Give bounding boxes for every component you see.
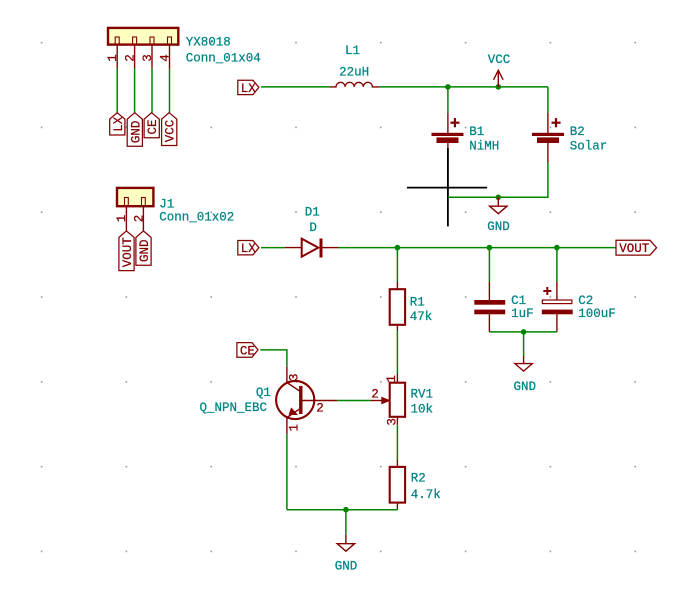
global label LX (vertical) xyxy=(110,113,126,135)
global label VOUT (vertical) xyxy=(119,231,135,271)
global label VOUT xyxy=(616,240,657,256)
svg-text:GND: GND xyxy=(514,380,537,394)
wire pin1 to LX label xyxy=(116,69,118,113)
svg-text:NiMH: NiMH xyxy=(469,140,499,154)
svg-text:3: 3 xyxy=(141,54,155,62)
global label GND (vertical) xyxy=(127,113,143,147)
wire node to B1 xyxy=(447,87,449,113)
junction at VCC xyxy=(496,84,502,90)
wire L1 to node VCC xyxy=(380,86,548,88)
battery B2 xyxy=(532,113,564,163)
svg-text:3: 3 xyxy=(288,373,302,381)
wire R1 to RV1 xyxy=(396,331,398,374)
wire B2 to bottom rail xyxy=(448,163,548,198)
wire R1 node to C1 node xyxy=(397,247,489,249)
wire node to R1 xyxy=(396,248,398,282)
svg-text:1: 1 xyxy=(106,54,120,62)
transistor Q1 xyxy=(276,367,337,434)
wire pin3 to CE label xyxy=(151,69,153,113)
svg-text:VCC: VCC xyxy=(164,120,178,143)
graphic line horizontal (black) xyxy=(407,187,487,189)
svg-text:1: 1 xyxy=(115,215,129,223)
svg-text:2: 2 xyxy=(124,54,138,62)
wire pin2 to GND label xyxy=(134,69,136,113)
svg-text:Conn_01x02: Conn_01x02 xyxy=(159,211,234,225)
svg-text:Conn_01x04: Conn_01x04 xyxy=(186,51,261,65)
ground symbol GND (capacitors) xyxy=(514,356,537,394)
wire pin4 to VCC label xyxy=(169,69,171,113)
svg-text:22uH: 22uH xyxy=(339,66,369,80)
wire B1 to bottom rail xyxy=(447,149,449,198)
svg-text:Q1: Q1 xyxy=(256,386,271,400)
capacitor C2 xyxy=(542,282,573,332)
global label VCC (vertical) xyxy=(162,113,178,146)
svg-text:4: 4 xyxy=(159,54,173,62)
ground symbol GND (bottom) xyxy=(335,535,358,574)
svg-text:YX8018: YX8018 xyxy=(186,35,231,49)
svg-text:B2: B2 xyxy=(570,125,585,139)
diode D1 xyxy=(285,239,338,258)
svg-text:CE: CE xyxy=(146,119,160,134)
svg-text:47k: 47k xyxy=(410,310,433,324)
battery B1 xyxy=(432,113,464,149)
pin 2 of J1 xyxy=(142,206,144,231)
svg-text:C2: C2 xyxy=(578,294,593,308)
wire junction to GND xyxy=(523,332,525,356)
svg-text:4.7k: 4.7k xyxy=(411,488,441,502)
wire CE to Q1 collector xyxy=(260,350,287,367)
svg-text:VOUT: VOUT xyxy=(121,237,135,268)
svg-text:Q_NPN_EBC: Q_NPN_EBC xyxy=(200,401,268,415)
svg-text:R1: R1 xyxy=(410,296,425,310)
junction at bottom GND xyxy=(343,507,349,513)
svg-text:10k: 10k xyxy=(411,402,434,416)
wire C1 to C2 bottom xyxy=(489,331,557,333)
potentiometer RV1 xyxy=(371,374,406,425)
svg-text:2: 2 xyxy=(132,215,146,223)
pin 1 of J1 xyxy=(125,206,127,231)
pin 3 of YX8018 xyxy=(151,45,153,69)
resistor R2 xyxy=(390,460,405,510)
global label GND (vertical) xyxy=(136,231,152,265)
svg-text:RV1: RV1 xyxy=(411,388,434,402)
wire VCC node to B2 xyxy=(547,87,549,113)
svg-text:2: 2 xyxy=(371,387,379,401)
svg-text:LX: LX xyxy=(241,242,257,256)
wire C2 node to VOUT xyxy=(557,247,616,249)
pin 4 of YX8018 xyxy=(169,45,171,69)
power symbol VCC xyxy=(488,53,511,87)
ground symbol GND (battery) xyxy=(487,197,510,234)
connector J1 Conn_01x02 body xyxy=(117,188,153,206)
wire LX to D1 xyxy=(261,247,285,249)
svg-text:GND: GND xyxy=(335,559,358,573)
global label LX (top rail) xyxy=(238,80,259,96)
svg-text:GND: GND xyxy=(138,239,152,262)
wire Q1 base to RV1 xyxy=(337,400,371,402)
junction at B1 top xyxy=(445,84,451,90)
wire node to C2 xyxy=(556,248,558,282)
svg-text:R2: R2 xyxy=(411,471,426,485)
svg-text:L1: L1 xyxy=(345,44,360,58)
resistor R1 xyxy=(390,282,405,332)
pin 1 of YX8018 xyxy=(116,45,118,69)
svg-text:100uF: 100uF xyxy=(578,307,616,321)
wire D1 to R1 node xyxy=(338,247,397,249)
svg-text:C1: C1 xyxy=(511,294,526,308)
svg-text:1uF: 1uF xyxy=(511,307,534,321)
inductor L1 xyxy=(330,82,380,87)
global label CE xyxy=(237,343,258,359)
svg-text:1: 1 xyxy=(385,375,399,383)
junction at C2 top xyxy=(554,245,560,251)
svg-text:VOUT: VOUT xyxy=(619,242,650,256)
svg-text:GND: GND xyxy=(129,121,143,144)
wire bottom rail xyxy=(287,509,398,511)
junction at R1 top xyxy=(395,245,401,251)
wire RV1 to R2 xyxy=(396,425,398,460)
svg-text:J1: J1 xyxy=(159,198,174,212)
global label LX (diode row) xyxy=(238,241,259,257)
capacitor C1 xyxy=(474,282,505,332)
svg-text:Solar: Solar xyxy=(570,140,608,154)
svg-text:2: 2 xyxy=(316,401,324,415)
svg-text:LX: LX xyxy=(241,82,257,96)
pin 2 of YX8018 xyxy=(134,45,136,69)
svg-text:D1: D1 xyxy=(305,205,320,219)
junction at GND xyxy=(496,195,502,201)
wire junction to GND xyxy=(345,510,347,535)
svg-text:D: D xyxy=(309,221,317,235)
global label CE (vertical) xyxy=(144,113,160,138)
svg-text:CE: CE xyxy=(240,344,255,358)
svg-text:LX: LX xyxy=(112,116,126,132)
connector YX8018 Conn_01x04 body xyxy=(108,28,178,45)
junction at cap GND xyxy=(521,329,527,335)
svg-text:B1: B1 xyxy=(469,125,484,139)
svg-text:3: 3 xyxy=(386,418,400,426)
graphic line vertical (black) xyxy=(447,148,449,226)
svg-text:GND: GND xyxy=(487,220,510,234)
wire LX to L1 xyxy=(261,86,330,88)
junction at C1 top xyxy=(487,245,493,251)
svg-text:1: 1 xyxy=(288,424,302,432)
wire Q1 emitter down xyxy=(286,434,288,510)
svg-text:VCC: VCC xyxy=(488,53,511,67)
wire node to C1 xyxy=(488,248,490,282)
wire C1 node to C2 node xyxy=(489,247,557,249)
